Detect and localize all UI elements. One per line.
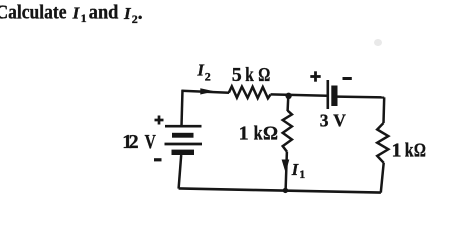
minus sign of 12V battery: [154, 158, 162, 161]
svg-text:k: k: [245, 64, 254, 86]
current arrow I2 (points right on top wire): [200, 88, 215, 94]
svg-text:Calculate: Calculate: [0, 2, 67, 24]
svg-text:5: 5: [232, 64, 242, 86]
faint scan smudge: [374, 39, 382, 46]
wire: top horizontal from left corner to 5k resistor: [182, 91, 230, 93]
wire: right vertical down to right 1k resistor: [382, 97, 385, 123]
wire: bottom horizontal: [179, 188, 381, 192]
wire: from 5k resistor to node A and to 3V battery + plate: [271, 94, 328, 95]
battery B2 3V: long thin positive plate: [326, 80, 329, 109]
svg-text:1: 1: [81, 11, 87, 25]
minus sign of 3V battery: [343, 77, 352, 80]
svg-text:2: 2: [129, 131, 139, 153]
battery B1 12V: plate 1 long thin (+): [165, 125, 202, 128]
battery B1 12V: plate 2 short thick: [172, 133, 194, 138]
resistor R1 5 kOhm (horizontal zigzag): [229, 86, 271, 98]
battery B2 3V: short thick negative plate: [331, 86, 337, 107]
label I1 (current in middle branch): [291, 160, 306, 181]
value label 5 kOhm: [232, 64, 271, 86]
resistor R3 1 kOhm (right vertical zigzag): [377, 123, 388, 163]
value label 1 kOhm (right resistor): [392, 140, 426, 162]
svg-text:k: k: [254, 123, 264, 145]
value label 1 kOhm (middle resistor): [239, 123, 278, 145]
svg-text:1: 1: [392, 140, 402, 162]
resistor R2 1 kOhm (middle vertical zigzag): [283, 111, 292, 152]
svg-text:V: V: [145, 131, 157, 153]
wire: middle vertical below resistor to bottom junction: [286, 152, 287, 191]
battery B1 12V: plate 4 short thick: [172, 150, 195, 155]
title text: Calculate I1 and I2: [0, 2, 143, 26]
node B junction dot (bottom of middle branch): [283, 188, 288, 193]
battery B1 12V: plate 3 long thin: [165, 143, 203, 146]
wire: middle vertical from node A to middle 1k resistor: [286, 96, 289, 111]
svg-text:Ω: Ω: [263, 123, 278, 145]
wire: right vertical below resistor to bottom-right corner: [381, 163, 384, 193]
plus sign of 3V battery: [310, 71, 320, 81]
svg-text:k: k: [405, 140, 414, 162]
svg-text:and: and: [89, 2, 119, 24]
wire: left vertical (top-left corner down to 12V battery): [182, 90, 183, 126]
svg-text:.: .: [138, 2, 143, 24]
plus sign of 12V battery: [155, 116, 164, 125]
value label 12 V: [122, 131, 156, 153]
svg-text:Ω: Ω: [258, 64, 270, 86]
current arrow I1 (points down on middle branch): [282, 160, 290, 173]
wire: left vertical from 12V battery down to bottom-left corner: [179, 155, 182, 189]
svg-text:Ω: Ω: [414, 140, 426, 162]
svg-text:1: 1: [239, 123, 249, 145]
label I2 (current on top wire): [197, 61, 211, 84]
node A junction dot (top, after 5k resistor): [285, 93, 291, 99]
svg-text:1: 1: [299, 167, 305, 181]
svg-text:2: 2: [205, 70, 211, 84]
svg-text:3V: 3V: [320, 111, 346, 131]
wire: from 3V battery to top-right corner: [338, 95, 385, 98]
svg-text:I: I: [197, 61, 205, 80]
svg-text:I: I: [291, 160, 299, 179]
